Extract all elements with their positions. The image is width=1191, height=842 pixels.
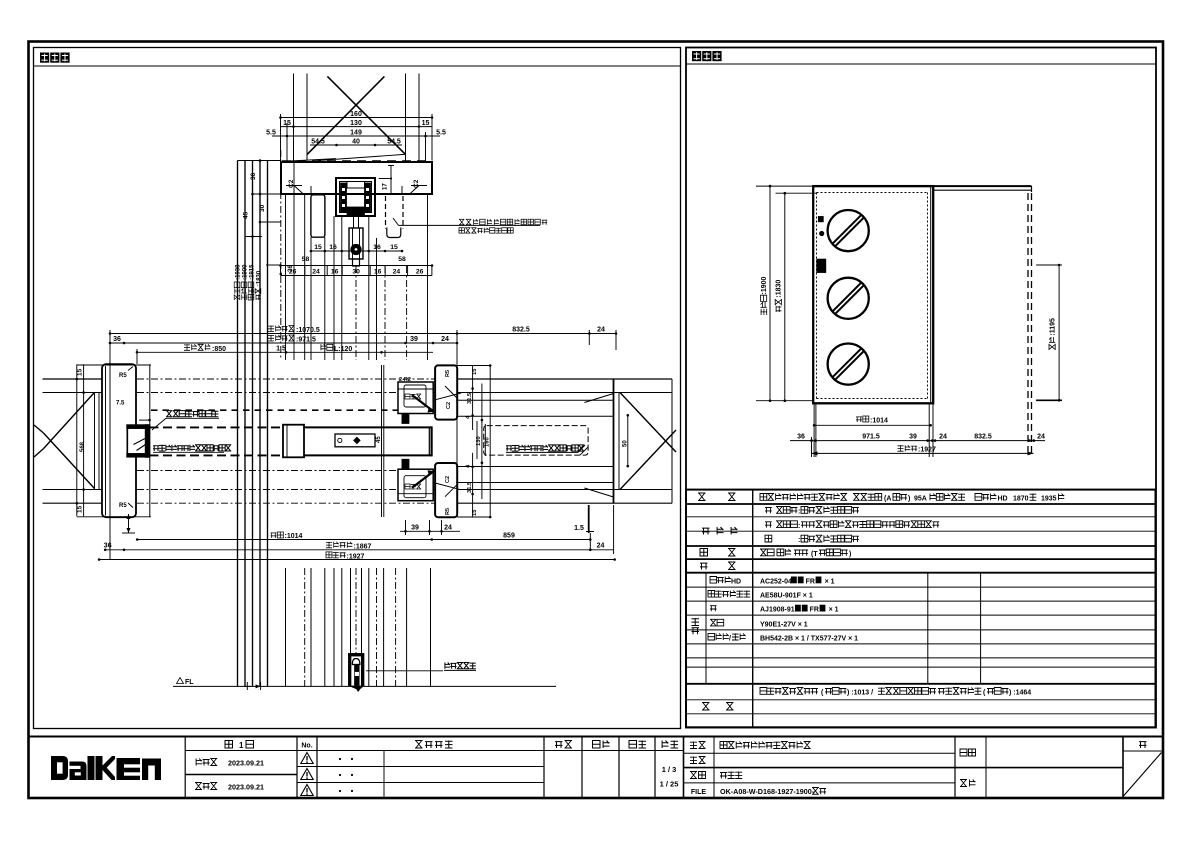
svg-text:15: 15 xyxy=(422,120,430,127)
svg-text::1830: :1830 xyxy=(257,270,263,286)
No. header xyxy=(301,743,312,750)
svg-text:50: 50 xyxy=(622,440,628,447)
svg-text:No.: No. xyxy=(301,743,312,750)
R5 labels left jamb xyxy=(119,367,133,510)
plan top dimension row 1 (1070.5 / 832.5 / 24) xyxy=(109,326,618,335)
svg-text:24: 24 xyxy=(939,434,947,441)
left wall X brace xyxy=(34,392,95,488)
part row 固定枠HD xyxy=(710,577,835,586)
第1版 header xyxy=(225,741,254,751)
spec row 要式 content xyxy=(760,494,1064,503)
elevation bottom dim extension verticals xyxy=(812,404,934,457)
svg-text:54.5: 54.5 xyxy=(387,139,401,146)
FL label xyxy=(177,678,195,687)
pocket end post xyxy=(614,379,620,503)
図名 label xyxy=(690,772,706,779)
svg-text:30: 30 xyxy=(352,269,360,276)
elevation door leaf outline xyxy=(813,186,933,403)
leaf ghost dim extension lines xyxy=(477,421,485,459)
head jamb box xyxy=(281,161,432,194)
svg-text:Y90E1-27V × 1: Y90E1-27V × 1 xyxy=(760,621,808,628)
plan top dim extension verticals xyxy=(110,330,616,560)
備考 content xyxy=(760,688,1031,697)
svg-text:AC252-04: AC252-04 xyxy=(760,579,792,586)
svg-text:16: 16 xyxy=(329,244,337,251)
horizontal track centerlines xyxy=(137,379,457,503)
plan top dimension row 2 (36 / 971.5 / 39 / 24) xyxy=(109,335,459,344)
ceiling slope lines xyxy=(281,154,405,161)
pocket boards xyxy=(456,379,672,503)
scale values xyxy=(660,765,679,789)
svg-text::1915: :1915 xyxy=(250,264,256,280)
svg-text:130: 130 xyxy=(350,120,362,127)
elevation inner dotted frame xyxy=(817,186,931,403)
svg-text:FILE: FILE xyxy=(691,789,706,796)
svg-text:31.5: 31.5 xyxy=(467,392,473,404)
dim extension verticals xyxy=(281,114,433,161)
svg-text:26: 26 xyxy=(288,265,294,272)
row label 要式 xyxy=(698,493,736,501)
作成 header xyxy=(629,741,646,749)
制定日 2023.09.21 xyxy=(196,759,264,768)
title block frame xyxy=(29,737,1164,799)
row label 備考 xyxy=(702,703,734,711)
wall stud lines above head xyxy=(294,74,420,161)
svg-text:FR: FR xyxy=(810,607,819,614)
guide pin label xyxy=(366,663,476,671)
note 調整枠は H・HOの調整可能 xyxy=(459,219,547,233)
FILE value xyxy=(720,787,826,796)
頁 header xyxy=(1139,742,1147,748)
svg-text:30: 30 xyxy=(259,204,266,212)
hanger bolt and bracket xyxy=(349,216,363,266)
svg-text:16: 16 xyxy=(374,269,382,276)
svg-text:39: 39 xyxy=(411,525,419,532)
plan bottom dim 1014 / 859 / 1.5 xyxy=(136,505,594,550)
改訂日 2023.09.21 xyxy=(195,783,264,792)
strike dims rotated xyxy=(457,364,491,518)
plan bottom dim 1927 xyxy=(98,552,616,561)
right panel frame xyxy=(686,48,1156,728)
svg-text:HD: HD xyxy=(731,579,741,586)
bottom section verticals xyxy=(286,568,431,686)
568 label xyxy=(80,441,86,452)
elevation head rail to the right xyxy=(813,186,1031,192)
svg-text:15: 15 xyxy=(472,368,478,375)
svg-text::1867: :1867 xyxy=(354,543,372,550)
elevation left dims 1900 1830 xyxy=(756,185,817,402)
pocket mouth (black ring) xyxy=(127,425,151,458)
C2 labels head jamb xyxy=(288,179,420,188)
svg-text:26: 26 xyxy=(416,269,424,276)
svg-text::: : xyxy=(798,537,800,544)
svg-text::1070.5: :1070.5 xyxy=(296,327,320,334)
svg-text:24: 24 xyxy=(597,543,605,550)
svg-text:45: 45 xyxy=(243,211,250,219)
svg-text:L:120: L:120 xyxy=(334,346,352,353)
jamb pocket edge vertical xyxy=(149,364,151,516)
head bottom long dim 26 24 16 30 16 24 26 xyxy=(279,264,433,275)
svg-text:C2: C2 xyxy=(413,179,420,188)
svg-text:24: 24 xyxy=(1037,434,1045,441)
7.5 dim xyxy=(116,401,151,422)
svg-text:1.5: 1.5 xyxy=(276,345,286,352)
vertical dim ticks/labels 36 45 30 xyxy=(238,159,282,238)
spec row 枠 xyxy=(765,535,859,544)
svg-text:× 1: × 1 xyxy=(825,579,835,586)
hanger rail assembly xyxy=(336,178,375,216)
leader to adjustment note xyxy=(393,218,540,225)
porthole circles xyxy=(828,210,869,385)
svg-text:16: 16 xyxy=(331,269,339,276)
svg-text:) :1013 /: ) :1013 / xyxy=(847,690,873,697)
spec table grid xyxy=(686,490,1156,728)
label A部:参考納まり xyxy=(152,411,219,430)
handle plate in leaf xyxy=(335,434,382,447)
svg-text:1 / 3: 1 / 3 xyxy=(662,765,677,774)
確認 header xyxy=(593,741,610,749)
strike jamb lower xyxy=(398,459,458,517)
svg-text:C2: C2 xyxy=(445,476,451,483)
left panel title 断面図 xyxy=(40,53,70,63)
svg-text:) :1464: ) :1464 xyxy=(1009,690,1031,697)
door hardware left edge xyxy=(817,216,826,272)
left 15 dims xyxy=(76,364,152,516)
svg-text:7.5: 7.5 xyxy=(116,401,125,407)
plan top dimension row 3 (850 / 1.5 / 120) xyxy=(136,344,433,353)
pocket center posts xyxy=(382,365,384,517)
svg-text:36: 36 xyxy=(113,336,121,343)
50 dim at pocket end xyxy=(622,414,629,467)
svg-text::1900: :1900 xyxy=(761,276,768,294)
svg-text:15: 15 xyxy=(390,244,398,251)
revision dots xyxy=(339,758,353,792)
verticals below head jamb xyxy=(286,194,428,360)
svg-text:36: 36 xyxy=(797,434,805,441)
svg-text:1.5: 1.5 xyxy=(574,525,584,532)
guide pin detail xyxy=(348,653,364,692)
dimension 5.5 149 5.5 xyxy=(266,130,446,138)
right wall X brace xyxy=(620,379,676,503)
plan bottom dim 36 / 1867 / 24 xyxy=(104,542,614,554)
head bottom dims 15 16 / 16 15 xyxy=(310,244,404,252)
left panel frame xyxy=(34,48,681,729)
elevation right dim 1195 xyxy=(1036,264,1062,402)
svg-text:5.5: 5.5 xyxy=(266,130,276,137)
label 扉固定ビス用穴隠しキャップ (left) xyxy=(153,445,231,453)
part row 引手 xyxy=(710,619,808,628)
stopper profile right (dashed verticals + U) xyxy=(386,196,404,238)
58 labels xyxy=(302,256,406,263)
dimension 160 xyxy=(279,111,433,119)
svg-text:859: 859 xyxy=(503,533,515,540)
名称 value おもいやりキッズシリーズ xyxy=(720,742,811,749)
svg-text:58: 58 xyxy=(398,256,406,263)
strike jamb upper xyxy=(398,365,458,423)
26 small dim xyxy=(266,265,294,276)
svg-text:15: 15 xyxy=(472,509,478,516)
svg-text:(T: (T xyxy=(811,551,818,558)
floor tick marks xyxy=(244,682,261,690)
spec row 把手 content xyxy=(760,549,851,558)
svg-text:40: 40 xyxy=(352,139,360,146)
名称 label xyxy=(690,742,706,749)
svg-text:(A: (A xyxy=(884,496,891,503)
svg-text::1927: :1927 xyxy=(347,553,365,560)
svg-text:R5: R5 xyxy=(119,373,127,379)
row label 金具 xyxy=(700,562,736,570)
warning triangles xyxy=(301,753,313,796)
part row 本体錠/受ケ xyxy=(708,633,858,642)
svg-text:971.5: 971.5 xyxy=(862,434,880,441)
svg-text:15: 15 xyxy=(314,244,322,251)
svg-text:× 1: × 1 xyxy=(829,607,839,614)
rotated labels 内法高:1900 扉高:1830 xyxy=(761,276,769,315)
elevation bottom dim row2 xyxy=(790,434,1045,442)
dimension 54.5 40 54.5 xyxy=(310,139,402,147)
svg-text:OK-A08-W-D168-1927-1900-: OK-A08-W-D168-1927-1900- xyxy=(720,787,815,796)
svg-text::: : xyxy=(798,523,800,530)
品番 label xyxy=(690,757,706,764)
縮尺 header xyxy=(662,741,678,749)
spec row パネル xyxy=(765,507,859,516)
svg-text:24: 24 xyxy=(444,525,452,532)
svg-text:AJ1908-91: AJ1908-91 xyxy=(760,607,795,614)
row label 把手 xyxy=(700,549,736,557)
svg-text::1830: :1830 xyxy=(776,280,783,298)
X wall brace above head xyxy=(307,76,406,154)
rotated height labels xyxy=(234,264,262,300)
svg-text:58: 58 xyxy=(302,256,310,263)
svg-text:1935: 1935 xyxy=(1041,496,1057,503)
図名 value 三面図 xyxy=(720,772,742,779)
svg-text::971.5: :971.5 xyxy=(296,337,316,344)
svg-text:2023.09.21: 2023.09.21 xyxy=(228,783,264,792)
elevation right dashed opening lines xyxy=(1028,193,1032,453)
svg-text:24: 24 xyxy=(393,269,401,276)
svg-text:39: 39 xyxy=(909,434,917,441)
svg-text::1195: :1195 xyxy=(1050,318,1057,336)
svg-text::850: :850 xyxy=(212,346,226,353)
row label 仕上げ xyxy=(702,527,738,535)
svg-text:36: 36 xyxy=(250,172,257,180)
svg-text:15: 15 xyxy=(77,505,84,513)
FILE label xyxy=(691,789,706,796)
plan bottom dims 39 24 xyxy=(400,520,460,535)
spec row ガラス xyxy=(765,521,939,530)
pocket diagonals near end xyxy=(433,393,613,497)
svg-text:568: 568 xyxy=(80,441,86,452)
svg-text:FL: FL xyxy=(185,679,194,686)
svg-text:2-R2: 2-R2 xyxy=(399,377,411,383)
svg-text:16: 16 xyxy=(373,244,381,251)
svg-text::1900: :1900 xyxy=(243,264,249,280)
elevation bottom dim 1927 xyxy=(812,445,1034,455)
label 扉固定ビス用穴隠しキャップ (pocket) xyxy=(506,445,585,453)
left door jamb profile xyxy=(102,364,136,517)
svg-text:95A: 95A xyxy=(914,496,927,503)
17 label xyxy=(379,166,394,194)
svg-text:1: 1 xyxy=(239,741,244,750)
svg-text:160: 160 xyxy=(350,111,362,118)
svg-text:BH542-2B × 1 / TX577-27V × 1: BH542-2B × 1 / TX577-27V × 1 xyxy=(760,635,858,642)
svg-text:5.5: 5.5 xyxy=(436,130,446,137)
svg-text::1938: :1938 xyxy=(236,264,242,280)
svg-text:C2: C2 xyxy=(446,402,452,409)
part row 扉 xyxy=(710,605,839,614)
svg-text:24: 24 xyxy=(312,269,320,276)
改訂履歴 header xyxy=(415,741,453,749)
件名 label xyxy=(960,749,976,756)
svg-text:149: 149 xyxy=(350,130,362,137)
dimension 15 130 15 xyxy=(281,120,433,128)
svg-text:HD: HD xyxy=(998,496,1008,503)
svg-text:FR: FR xyxy=(806,579,815,586)
svg-text:24: 24 xyxy=(597,327,605,334)
strike jamb lower labels xyxy=(405,476,451,515)
svg-text:R5: R5 xyxy=(445,508,451,515)
svg-text:17: 17 xyxy=(383,183,389,190)
svg-text:1 / 25: 1 / 25 xyxy=(660,780,679,789)
svg-text:AE58U-901F × 1: AE58U-901F × 1 xyxy=(760,593,813,600)
door leaf in plan xyxy=(136,425,432,458)
vertical extension x457 xyxy=(456,330,458,517)
floor line xyxy=(173,685,556,687)
right panel title 正面図 xyxy=(692,51,722,61)
svg-text:R5: R5 xyxy=(119,503,127,509)
svg-text:36: 36 xyxy=(104,543,112,550)
svg-text:832.5: 832.5 xyxy=(974,434,992,441)
DAIKEN logo xyxy=(51,756,161,780)
景番 header xyxy=(555,741,572,749)
svg-text::: : xyxy=(798,509,800,516)
svg-text:24: 24 xyxy=(441,336,449,343)
svg-text:1870: 1870 xyxy=(1013,496,1029,503)
left wall section xyxy=(43,379,102,503)
row label 品番 (vertical) xyxy=(692,618,700,634)
small 4 dim left bottom xyxy=(122,514,135,533)
elevation bottom dim 1014 xyxy=(813,416,932,427)
part row レールセット xyxy=(708,591,813,600)
svg-text:/: / xyxy=(729,635,731,642)
page diagonal xyxy=(1123,753,1162,797)
left vertical dim stack lines xyxy=(238,150,295,686)
svg-text:39: 39 xyxy=(410,336,418,343)
svg-text:832.5: 832.5 xyxy=(512,327,530,334)
svg-text:): ) xyxy=(849,551,851,558)
図員 label xyxy=(960,780,976,787)
svg-text:54.5: 54.5 xyxy=(311,139,325,146)
svg-text::1014: :1014 xyxy=(870,418,888,425)
svg-text:R5: R5 xyxy=(445,370,451,377)
door top rounded profile left xyxy=(311,195,325,237)
leaf ghost in pocket (dashed) xyxy=(484,426,588,456)
svg-text::1014: :1014 xyxy=(285,533,303,540)
svg-text:15: 15 xyxy=(77,368,84,376)
svg-text:2023.09.21: 2023.09.21 xyxy=(228,759,264,768)
strike jamb upper labels xyxy=(399,370,452,409)
svg-text:): ) xyxy=(908,496,910,503)
